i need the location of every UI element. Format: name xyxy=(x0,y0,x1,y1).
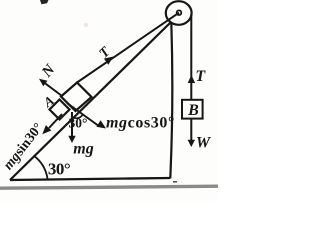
mgcos30 arrow xyxy=(67,103,100,127)
bottom gray rule xyxy=(0,186,218,188)
svg-text:mgcos30°: mgcos30° xyxy=(106,114,175,131)
pulley axle xyxy=(177,10,182,15)
small 30 degree arc at block xyxy=(72,114,84,118)
block A main square xyxy=(61,83,92,112)
pulley wheel xyxy=(166,1,192,25)
speck near bottom right corner xyxy=(173,181,177,183)
stray text fragment top edge xyxy=(40,0,49,4)
tension arrowhead on vertical rope xyxy=(188,75,195,83)
normal force N arrow xyxy=(45,84,62,97)
rope along incline to pulley axle xyxy=(77,13,179,83)
vertical rope from pulley to block B xyxy=(190,14,192,100)
block A lower square xyxy=(50,100,70,120)
30 degree arc at vertex xyxy=(34,156,48,179)
mgsin30 arrow xyxy=(49,114,62,128)
svg-text:B: B xyxy=(187,102,199,119)
faint pink speck xyxy=(84,23,88,27)
incline baseline xyxy=(10,178,170,180)
block B box xyxy=(182,100,203,119)
weight W arrow xyxy=(190,119,192,142)
svg-text:30°: 30° xyxy=(48,160,70,179)
svg-text:30°: 30° xyxy=(69,116,88,131)
incline hypotenuse xyxy=(10,22,171,180)
svg-text:W: W xyxy=(196,135,212,152)
mg arrow xyxy=(71,112,73,138)
svg-text:T: T xyxy=(195,68,206,85)
triangle vertical side xyxy=(170,22,172,178)
tension arrowhead on incline rope xyxy=(104,57,114,65)
svg-text:mg: mg xyxy=(73,141,93,158)
